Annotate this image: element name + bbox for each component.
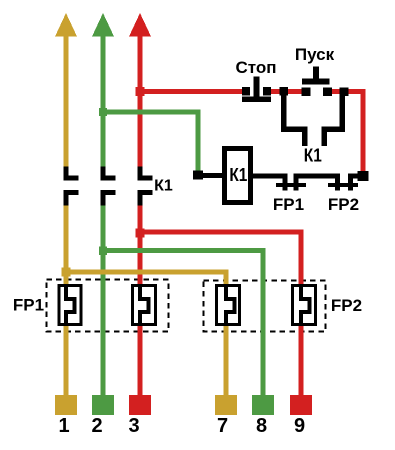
svg-text:Пуск: Пуск [295, 45, 335, 64]
thermal element FP1-2 (red phase) [133, 284, 156, 326]
wire red control feed horizontal (y=91.5) [140, 89, 243, 94]
wire coil output to FP1 contact (black, y=176) [253, 174, 288, 179]
terminal 3 (red) [129, 395, 151, 415]
svg-text:2: 2 [91, 415, 102, 437]
wire FP2 to red drop (black) [348, 174, 363, 179]
auxiliary contact K1 (parallel with Пуск) [281, 96, 345, 147]
wire yellow branch to terminal 7 [66, 270, 229, 396]
terminal 2 (green) [92, 395, 114, 415]
terminal 8 (green) [252, 395, 274, 415]
wire red between node and Пуск [288, 89, 302, 94]
svg-text:К1: К1 [229, 165, 247, 185]
FP2 NC contact in control circuit [328, 174, 358, 191]
phase wire L1 vertical (yellow, x=66) [64, 35, 69, 396]
wire green control horizontal (y=112) [103, 110, 201, 115]
thermal element FP2-1 (yellow phase) [217, 284, 240, 326]
label Стоп [235, 58, 276, 77]
phase wire L2 vertical (green, x=103) [101, 35, 106, 396]
svg-text:К1: К1 [304, 146, 322, 166]
thermal element FP1-1 (yellow phase) [59, 284, 81, 326]
label FP1 (left of box) [13, 296, 44, 315]
label FP2 (right of box) [331, 296, 362, 315]
terminal 9 (red) [290, 395, 312, 415]
node junction on L2 (green, 103,112) [99, 108, 107, 116]
wire red branch to terminal 9 [140, 230, 304, 396]
node parallel branch right (black, 344,91.5) [340, 88, 349, 97]
wire red from node to corner and down to FP2 junction [349, 89, 366, 172]
FP1 NC contact in control circuit [276, 174, 306, 191]
label 2 [91, 415, 102, 437]
label 8 [256, 415, 267, 437]
label FP2 (control contact) [328, 195, 359, 214]
svg-text:К1: К1 [154, 178, 173, 195]
label FP1 (control contact) [273, 195, 304, 214]
main contact K1 pole 1 (yellow phase) [64, 167, 79, 206]
svg-text:1: 1 [58, 415, 69, 437]
node parallel branch left (black, 283.5,91.5) [280, 87, 289, 96]
wire green control vertical (x=198) [196, 110, 201, 174]
wire between FP1 and FP2 contacts (black) [294, 174, 341, 179]
wire coil input (black) [198, 173, 224, 178]
phase L2 arrow [92, 13, 114, 37]
label 3 [128, 415, 139, 437]
thermal relay FP1 dashed box [47, 280, 169, 332]
svg-text:3: 3 [128, 415, 139, 437]
svg-text:9: 9 [294, 415, 305, 437]
stop button Стоп (NC pushbutton) [242, 77, 271, 103]
svg-text:FP2: FP2 [328, 195, 359, 214]
svg-text:FP2: FP2 [331, 296, 362, 315]
label K1 (main contacts) [154, 178, 173, 195]
svg-text:FP1: FP1 [273, 195, 304, 214]
label K1 (aux contact) [304, 146, 322, 166]
node junction FP2/red (black, 363,176) [358, 171, 369, 181]
label Пуск [295, 45, 335, 64]
label 9 [294, 415, 305, 437]
wire red between Пуск and right node [332, 89, 341, 94]
start button Пуск (NO pushbutton) [302, 67, 333, 97]
terminal 7 (yellow) [215, 395, 237, 415]
contactor coil K1 [225, 149, 251, 203]
node junction on L2 lower (green, 103,250.5) [99, 247, 107, 256]
thermal element FP2-2 (red phase) [293, 284, 316, 326]
main contact K1 pole 3 (red phase) [138, 167, 153, 206]
phase L3 arrow [129, 13, 151, 37]
phase L1 arrow [55, 13, 77, 37]
wire red between Стоп and branch node [271, 89, 281, 94]
node junction on L1 lower (yellow, 66,272) [62, 268, 71, 277]
node junction at coil input (black, 198,175) [193, 171, 203, 180]
svg-text:FP1: FP1 [13, 296, 44, 315]
label 1 [58, 415, 69, 437]
terminal 1 (yellow) [55, 395, 77, 415]
thermal relay FP2 dashed box [204, 281, 326, 332]
label 7 [217, 415, 228, 437]
svg-text:8: 8 [256, 415, 267, 437]
node junction on L3 lower (red, 140,233) [136, 229, 145, 238]
wire green branch to terminal 8 [103, 248, 266, 396]
svg-text:Стоп: Стоп [235, 58, 276, 77]
main contact K1 pole 2 (green phase) [101, 167, 116, 206]
phase wire L3 vertical (red, x=140) [138, 35, 143, 396]
node junction on L3 (red, 140,91.5) [136, 87, 145, 96]
svg-text:7: 7 [217, 415, 228, 437]
